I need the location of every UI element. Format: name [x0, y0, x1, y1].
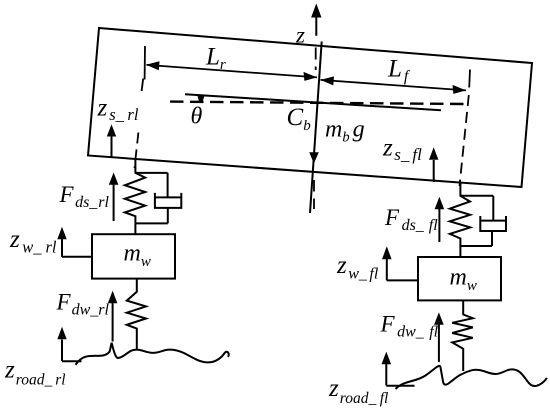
L_r dimension — [145, 46, 317, 81]
left spring to mass link — [134, 223, 136, 234]
left dashed extension line — [135, 79, 144, 169]
left road profile — [76, 343, 229, 365]
right suspension spring — [450, 182, 470, 246]
L_f dimension — [321, 70, 471, 94]
F_dw_fl arrow — [434, 312, 444, 362]
pitch reference dashed horizontal line — [170, 102, 464, 104]
left suspension bottom connector — [135, 222, 167, 224]
left suspension spring — [125, 159, 145, 224]
vehicle body rectangle — [88, 28, 532, 187]
z_s_rl arrow — [107, 124, 116, 157]
svg-text:z: z — [295, 23, 305, 48]
F_ds_fl arrow — [435, 197, 445, 242]
body longitudinal axis line through C_b — [185, 94, 441, 110]
z axis dashed line bottom — [313, 180, 315, 209]
z axis dashed line top — [315, 48, 317, 71]
z axis arrow — [311, 4, 321, 36]
left damper — [155, 173, 181, 224]
z_road_rl arrow — [57, 327, 81, 361]
z_w_fl arrow — [382, 246, 418, 280]
right road profile — [396, 366, 547, 389]
left tire spring — [127, 279, 146, 351]
right suspension top connector — [460, 195, 493, 197]
body vertical axis line — [310, 42, 322, 214]
m_b g gravity arrowhead — [309, 152, 319, 163]
F_ds_rl arrow — [109, 173, 119, 222]
right damper — [480, 196, 506, 246]
right wheel mass box — [418, 257, 501, 300]
svg-text:θ: θ — [191, 104, 203, 130]
right spring to mass link — [459, 246, 461, 257]
z_w_rl arrow — [57, 227, 92, 257]
z_s_fl arrow — [429, 147, 438, 182]
theta angle wedge — [197, 95, 205, 103]
z_road_fl arrow — [382, 352, 415, 386]
F_dw_rl arrow — [108, 291, 118, 342]
right dashed extension line — [460, 95, 469, 186]
left suspension top connector — [135, 172, 167, 174]
left wheel mass box — [92, 234, 175, 278]
right tire spring — [452, 300, 473, 371]
right suspension bottom connector — [460, 245, 492, 247]
